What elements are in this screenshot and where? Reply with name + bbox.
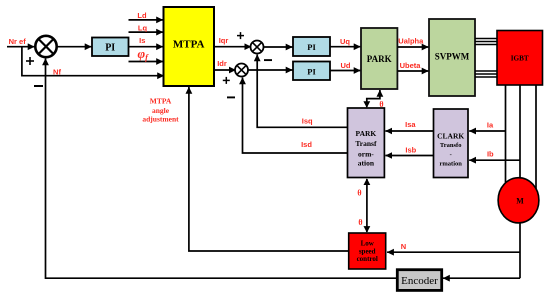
svg-text:Encoder: Encoder (401, 275, 438, 287)
wire S1 to PI speed (57, 46, 92, 48)
wire Ia tap to CLARK (469, 130, 505, 132)
CLARK transformation block (434, 109, 469, 178)
svg-text:MTPA: MTPA (173, 38, 205, 50)
svg-text:adjustment: adjustment (142, 115, 179, 124)
low speed control block (349, 233, 386, 269)
wire Is into MTPA (129, 46, 164, 48)
wire Ld into MTPA (129, 19, 164, 21)
wire Ib tap to CLARK (469, 159, 520, 161)
PI speed controller block (92, 38, 129, 57)
svg-text:Isq: Isq (302, 116, 313, 125)
wire Lq into MTPA (129, 31, 164, 33)
PARK block (361, 28, 397, 89)
svg-text:rmation: rmation (440, 160, 463, 167)
summing junction S3 (235, 64, 248, 77)
sign plus of S3 (223, 77, 230, 84)
svg-text:Isa: Isa (405, 120, 416, 129)
svg-text:Is: Is (139, 36, 145, 45)
svg-text:orm-: orm- (358, 150, 374, 159)
encoder block (397, 270, 441, 291)
PARK transformation block (348, 108, 385, 178)
IGBT inverter block (497, 31, 543, 86)
wire low speed control to MTPA bottom (189, 87, 349, 251)
svg-text:PI: PI (307, 42, 316, 52)
wire IGBT phase A down to motor (505, 85, 507, 190)
svg-text:Ualpha: Ualpha (398, 37, 424, 46)
svg-text:Isd: Isd (301, 140, 312, 149)
wire Ualpha to SVPWM (398, 46, 429, 48)
svg-text:Transfo: Transfo (440, 142, 462, 149)
svg-text:CLARK: CLARK (437, 131, 464, 140)
svg-text:N: N (401, 242, 406, 251)
wire S3 to PI d (248, 69, 293, 71)
wire IGBT phase B down to motor (519, 85, 521, 179)
svg-text:PI: PI (307, 66, 316, 76)
sign minus of S1 (34, 85, 43, 87)
sign plus of S1 (26, 57, 34, 65)
wire Iqr MTPA to S2 (214, 46, 251, 48)
wire theta between PARK transformation and PARK (367, 90, 380, 107)
wire motor to encoder (443, 277, 520, 279)
svg-text:Ia: Ia (487, 121, 494, 130)
wire Isd feedback up into S3 (243, 78, 349, 154)
wire Nref input (7, 46, 35, 48)
MTPA angle adjustment note (142, 97, 179, 124)
svg-text:θ: θ (379, 100, 383, 109)
svg-text:Uq: Uq (340, 37, 350, 46)
svg-text:Isb: Isb (405, 146, 416, 155)
svg-text:Nr ef: Nr ef (9, 37, 27, 46)
wire S2 to PI q (263, 46, 292, 48)
svg-text:θ: θ (358, 218, 362, 227)
wire N speed to low speed control (387, 251, 520, 253)
wire phi_f into MTPA (129, 61, 164, 63)
wire Isb CLARK to PARK transformation (385, 155, 433, 157)
svg-text:PI: PI (105, 43, 115, 54)
sign minus of S3 (227, 96, 235, 98)
svg-text:Iqr: Iqr (219, 36, 229, 45)
SVPWM block (429, 19, 475, 96)
wire Uq to PARK (330, 46, 361, 48)
PI q-axis controller block (293, 37, 330, 56)
svg-text:MTPA: MTPA (150, 97, 172, 106)
svg-text:angle: angle (152, 106, 170, 115)
svg-text:Ld: Ld (137, 11, 147, 20)
svg-text:Idr: Idr (217, 59, 227, 68)
svg-text:Nf: Nf (53, 67, 61, 76)
motor M (498, 178, 539, 223)
wire speed feedback up into summing junction (46, 59, 398, 279)
svg-text:SVPWM: SVPWM (435, 52, 470, 62)
wire Isq feedback up into S2 (257, 55, 348, 128)
wire 3-phase bus lower (475, 71, 497, 77)
svg-text:M: M (516, 197, 524, 206)
wire 3-phase bus upper (475, 39, 497, 45)
wire Ubeta to SVPWM (398, 70, 429, 72)
svg-text:Ud: Ud (341, 61, 351, 70)
svg-text:PARK: PARK (356, 129, 377, 138)
sign plus of S2 (237, 32, 244, 39)
wire Ud to PARK (330, 70, 361, 72)
svg-text:-: - (450, 152, 452, 159)
svg-text:Ib: Ib (487, 150, 494, 159)
wire IGBT phase C down to motor (535, 85, 537, 190)
summing junction S2 (251, 41, 264, 54)
sign minus of S2 (264, 59, 272, 61)
summing junction S1 (35, 36, 56, 57)
svg-text:Lq: Lq (138, 24, 148, 33)
wire Idr MTPA to S3 (214, 69, 236, 71)
svg-text:IGBT: IGBT (511, 55, 529, 63)
wire motor shaft down (519, 223, 521, 278)
svg-text:θ: θ (357, 188, 361, 197)
svg-text:control: control (357, 255, 378, 263)
svg-text:Transf: Transf (355, 139, 377, 148)
wire theta between PARK transformation and low speed control (366, 179, 368, 232)
wire Nref branch down to Nf row (22, 47, 164, 76)
svg-text:PARK: PARK (367, 54, 392, 64)
svg-text:ation: ation (358, 159, 375, 168)
MTPA block (164, 7, 215, 86)
svg-text:Low: Low (361, 239, 375, 247)
wire Isa CLARK to PARK transformation (385, 130, 433, 132)
svg-text:Ubeta: Ubeta (400, 61, 422, 70)
PI d-axis controller block (293, 62, 330, 81)
